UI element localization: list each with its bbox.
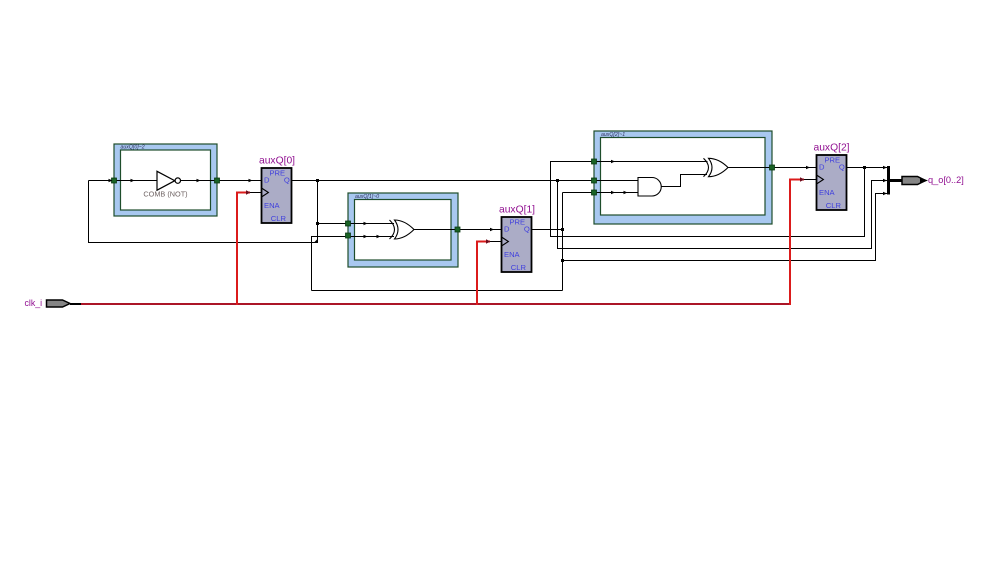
wire NOT output to auxQ[0] D: [181, 180, 262, 182]
svg-text:auxQ[2]: auxQ[2]: [813, 142, 849, 153]
svg-text:auxQ[2]~1: auxQ[2]~1: [601, 132, 625, 138]
svg-text:COMB (NOT): COMB (NOT): [143, 190, 187, 199]
svg-text:D: D: [819, 162, 825, 171]
wire Q2 from auxQ[2] Q to bus: [846, 167, 889, 169]
wire clock stub auxQ[0]: [250, 192, 262, 194]
AND gate in auxQ[2]~1: [638, 178, 661, 197]
flip-flop auxQ[1]: [502, 217, 532, 272]
input pin clk_i: [47, 300, 71, 307]
svg-text:PRE: PRE: [269, 169, 285, 178]
junction node Q1 bus tap: [561, 259, 564, 262]
arrowhead clk auxQ[0]: [246, 190, 251, 194]
wire XOR1 output to auxQ[1] D: [414, 229, 502, 231]
arrowhead clk auxQ[1]: [486, 239, 491, 243]
port squares on box auxQ[1]~0: [346, 221, 461, 238]
arrowheads on wires: [109, 160, 888, 239]
wire clk_i stub: [70, 303, 82, 305]
XOR gate in auxQ[1]~0: [390, 220, 415, 239]
wire clk riser to auxQ[1]: [477, 242, 490, 306]
wire Q1 to AND gate bottom input: [563, 192, 638, 194]
port squares on box auxQ[0]~2: [112, 178, 220, 183]
svg-text:auxQ[0]~2: auxQ[0]~2: [121, 145, 145, 151]
svg-text:Q: Q: [524, 224, 530, 233]
wire clk riser to auxQ[2]: [790, 180, 804, 306]
junction node Q0 bus tap: [556, 179, 559, 182]
junction node Q0 drop: [316, 179, 319, 182]
svg-text:CLR: CLR: [511, 263, 527, 272]
svg-text:ENA: ENA: [504, 250, 521, 259]
svg-text:clk_i: clk_i: [25, 298, 43, 308]
svg-text:auxQ[1]~0: auxQ[1]~0: [355, 194, 379, 200]
port squares on box auxQ[2]~1: [592, 159, 775, 195]
wire clk main run: [81, 303, 790, 305]
svg-text:Q: Q: [284, 175, 290, 184]
svg-text:Q: Q: [839, 162, 845, 171]
wire Q0 to output bus: [558, 181, 889, 249]
wire Q1 vertical V3: [562, 193, 564, 291]
svg-text:D: D: [504, 224, 510, 233]
flip-flop auxQ[0]: [262, 168, 292, 223]
wire Q0 from auxQ[0] Q to AND gate input: [292, 180, 638, 182]
svg-text:ENA: ENA: [264, 201, 281, 210]
output bus collector: [889, 166, 903, 195]
junction node Q0 branch XOR1: [316, 222, 319, 225]
NOT gate (COMB): [157, 171, 181, 190]
corner blob feedback: [314, 239, 319, 244]
wire Q1 from auxQ[1] Q: [532, 229, 563, 231]
arrowhead clk auxQ[2]: [800, 177, 805, 181]
wire clock stub auxQ[2]: [804, 179, 817, 181]
svg-text:auxQ[0]: auxQ[0]: [259, 155, 295, 166]
wire Q1 to output bus: [563, 194, 889, 261]
hierarchy box auxQ[2]~1: [594, 131, 772, 224]
hierarchy box auxQ[1]~0: [348, 193, 458, 267]
junction node Q2 tap: [863, 166, 866, 169]
wire Q0 vertical drop at x317: [317, 181, 319, 243]
XOR gate in auxQ[2]~1: [704, 158, 729, 176]
wire Q0 feedback to NOT input: [89, 181, 318, 243]
wire XOR2 output to auxQ[2] D: [728, 167, 817, 169]
svg-text:CLR: CLR: [826, 201, 842, 210]
wire NOT gate input: [89, 180, 158, 182]
svg-text:CLR: CLR: [271, 214, 287, 223]
flip-flop auxQ[2]: [817, 155, 847, 210]
wire clk riser to auxQ[0]: [237, 193, 250, 306]
junction node Q1 tee: [561, 228, 564, 231]
wire XOR1 bottom input: [312, 237, 395, 291]
svg-text:PRE: PRE: [509, 218, 525, 227]
hierarchy box auxQ[0]~2: [114, 144, 217, 216]
svg-text:D: D: [264, 175, 270, 184]
clock net red: [81, 180, 804, 306]
svg-text:q_o[0..2]: q_o[0..2]: [928, 175, 964, 185]
svg-text:auxQ[1]: auxQ[1]: [499, 204, 535, 215]
svg-text:ENA: ENA: [819, 188, 836, 197]
svg-text:PRE: PRE: [824, 156, 840, 165]
wire Q2 feedback to XOR2 top input: [551, 162, 865, 237]
output pin q_o[0..2]: [902, 177, 928, 185]
wire clock stub auxQ[1]: [490, 241, 502, 243]
wire Q1 feedback bottom run: [312, 290, 563, 292]
wire AND output to XOR2 bottom input: [661, 175, 708, 187]
wire Q0 branch to XOR1 top input: [318, 223, 395, 225]
